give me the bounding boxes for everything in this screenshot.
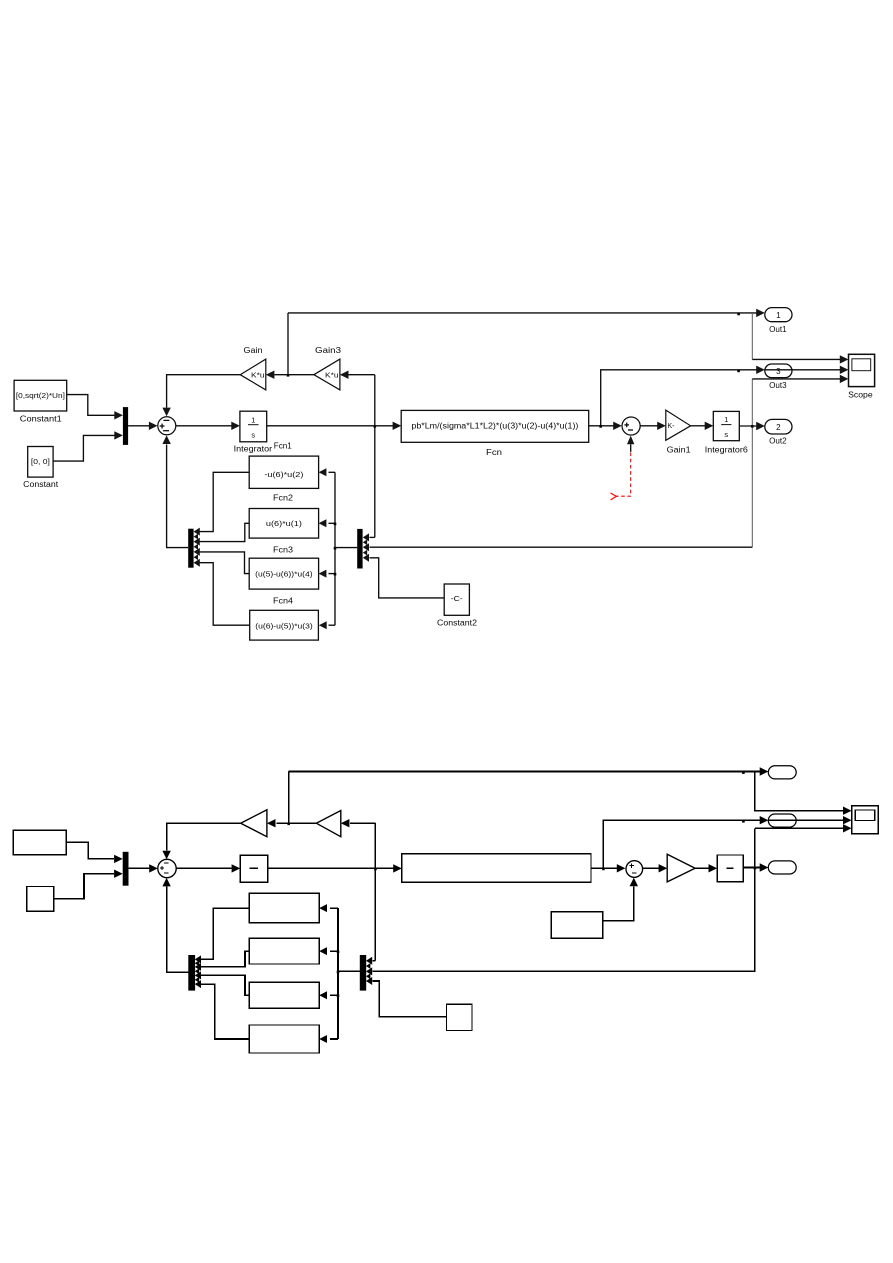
svg-text:K*u: K*u: [325, 373, 339, 380]
svg-text:Fcn4: Fcn4: [273, 597, 294, 606]
svg-text:u(6)*u(1): u(6)*u(1): [266, 519, 303, 528]
svg-text:1: 1: [724, 415, 728, 424]
svg-text:s: s: [251, 430, 255, 439]
svg-text:Gain3: Gain3: [315, 346, 342, 355]
svg-text:Constant: Constant: [23, 480, 59, 489]
svg-text:Integrator6: Integrator6: [705, 446, 749, 455]
svg-text:s: s: [724, 430, 728, 439]
svg-text:Out3: Out3: [769, 381, 787, 390]
svg-text:Out1: Out1: [769, 325, 787, 334]
svg-text:Constant2: Constant2: [437, 618, 478, 627]
svg-text:(u(6)-u(5))*u(3): (u(6)-u(5))*u(3): [255, 622, 313, 631]
svg-text:3: 3: [776, 367, 781, 376]
svg-text:2: 2: [776, 423, 781, 432]
svg-text:-u(6)*u(2): -u(6)*u(2): [264, 470, 304, 479]
svg-text:Fcn3: Fcn3: [273, 545, 294, 554]
svg-text:Fcn2: Fcn2: [273, 493, 294, 502]
svg-text:-C-: -C-: [451, 594, 464, 603]
svg-text:Constant1: Constant1: [20, 414, 63, 423]
svg-text:[0,sqrt(2)*Un]: [0,sqrt(2)*Un]: [16, 391, 65, 400]
svg-text:Gain1: Gain1: [667, 446, 692, 455]
svg-text:Scope: Scope: [848, 390, 873, 399]
svg-text:Gain: Gain: [244, 346, 263, 355]
svg-text:1: 1: [776, 311, 781, 320]
svg-text:Integrator: Integrator: [234, 444, 273, 453]
svg-text:Fcn: Fcn: [486, 448, 502, 457]
svg-text:Out2: Out2: [769, 437, 787, 446]
svg-text:[0, 0]: [0, 0]: [31, 457, 50, 466]
svg-text:K*u: K*u: [251, 373, 265, 380]
svg-text:pb*Lm/(sigma*L1*L2)*(u(3)*u(2): pb*Lm/(sigma*L1*L2)*(u(3)*u(2)-u(4)*u(1)…: [411, 422, 578, 431]
svg-text:(u(5)-u(6))*u(4): (u(5)-u(6))*u(4): [255, 570, 313, 579]
svg-text:Fcn1: Fcn1: [274, 441, 293, 450]
svg-text:K-: K-: [668, 423, 676, 430]
svg-text:1: 1: [251, 415, 255, 424]
